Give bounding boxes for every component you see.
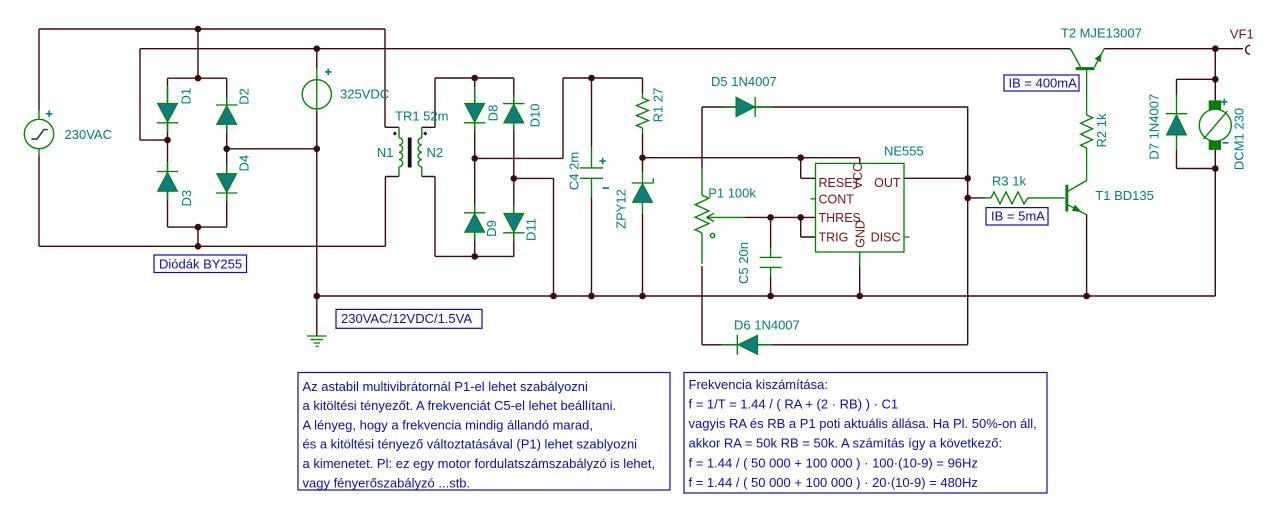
svg-text:D4: D4 (237, 155, 252, 172)
svg-text:D7 1N4007: D7 1N4007 (1146, 94, 1161, 160)
svg-text:R1 27: R1 27 (650, 88, 665, 123)
svg-text:D8: D8 (486, 105, 501, 122)
svg-text:325VDC: 325VDC (340, 87, 389, 102)
svg-text:D5 1N4007: D5 1N4007 (711, 74, 777, 89)
svg-text:akkor RA = 50k RB = 50k. A szá: akkor RA = 50k RB = 50k. A számítás így … (689, 436, 1003, 451)
svg-text:D9: D9 (484, 220, 499, 237)
svg-text:C4 2m: C4 2m (567, 152, 582, 190)
svg-text:f = 1/T = 1.44 / ( RA + (2 · R: f = 1/T = 1.44 / ( RA + (2 · RB) ) · C1 (689, 397, 899, 412)
svg-text:a kitöltési tényezőt. A frekve: a kitöltési tényezőt. A frekvenciát C5-e… (303, 398, 617, 413)
svg-text:P1 100k: P1 100k (708, 186, 756, 201)
svg-text:ZPY12: ZPY12 (614, 189, 629, 229)
svg-text:N2: N2 (427, 145, 444, 160)
svg-text:A lényeg, hogy a frekvencia mi: A lényeg, hogy a frekvencia mindig állan… (303, 417, 594, 432)
svg-text:TRIG: TRIG (819, 231, 849, 245)
svg-text:D6 1N4007: D6 1N4007 (734, 318, 800, 333)
svg-text:230VAC: 230VAC (65, 127, 112, 142)
svg-text:f = 1.44 / ( 50 000 + 100 000: f = 1.44 / ( 50 000 + 100 000 ) · 20·(10… (689, 475, 978, 490)
svg-text:D2: D2 (237, 88, 252, 105)
svg-text:IB = 5mA: IB = 5mA (991, 209, 1045, 224)
svg-text:T2 MJE13007: T2 MJE13007 (1061, 25, 1142, 40)
svg-text:VF1: VF1 (1230, 26, 1254, 41)
svg-text:D3: D3 (179, 190, 194, 207)
svg-text:a kimenetet. Pl: ez egy motor: a kimenetet. Pl: ez egy motor fordulatsz… (303, 456, 656, 471)
svg-text:és a kitöltési tényező változt: és a kitöltési tényező változtatásával (… (303, 437, 638, 452)
svg-text:T1 BD135: T1 BD135 (1095, 188, 1154, 203)
svg-text:CONT: CONT (819, 192, 855, 206)
svg-text:N1: N1 (377, 145, 394, 160)
svg-text:Frekvencia kiszámítása:: Frekvencia kiszámítása: (689, 377, 828, 392)
svg-text:D10: D10 (528, 104, 543, 128)
svg-text:OUT: OUT (874, 176, 901, 190)
svg-text:R3 1k: R3 1k (992, 174, 1026, 189)
svg-text:VCC: VCC (851, 163, 865, 189)
svg-text:vagy fényerőszabályzó ...stb.: vagy fényerőszabályzó ...stb. (303, 475, 471, 490)
svg-text:TR1 52m: TR1 52m (395, 109, 448, 124)
svg-text:DISC: DISC (871, 231, 901, 245)
svg-text:230VAC/12VDC/1.5VA: 230VAC/12VDC/1.5VA (341, 311, 472, 326)
svg-text:D11: D11 (524, 218, 539, 241)
svg-text:NE555: NE555 (884, 144, 924, 159)
svg-text:C5 20n: C5 20n (736, 242, 751, 284)
svg-text:GND: GND (853, 220, 867, 248)
svg-text:Az astabil multivibrátornál P1: Az astabil multivibrátornál P1-el lehet … (303, 379, 589, 394)
svg-text:Diódák BY255: Diódák BY255 (159, 256, 242, 271)
svg-text:DCM1 230: DCM1 230 (1232, 108, 1247, 170)
svg-text:f = 1.44 / ( 50 000 + 100 000: f = 1.44 / ( 50 000 + 100 000 ) · 100·(1… (689, 455, 978, 470)
svg-text:vagyis RA és RB a P1 poti aktu: vagyis RA és RB a P1 poti aktuális állás… (689, 416, 1037, 431)
svg-text:R2 1k: R2 1k (1094, 113, 1109, 147)
svg-text:IB = 400mA: IB = 400mA (1009, 75, 1078, 90)
svg-text:D1: D1 (179, 88, 194, 105)
